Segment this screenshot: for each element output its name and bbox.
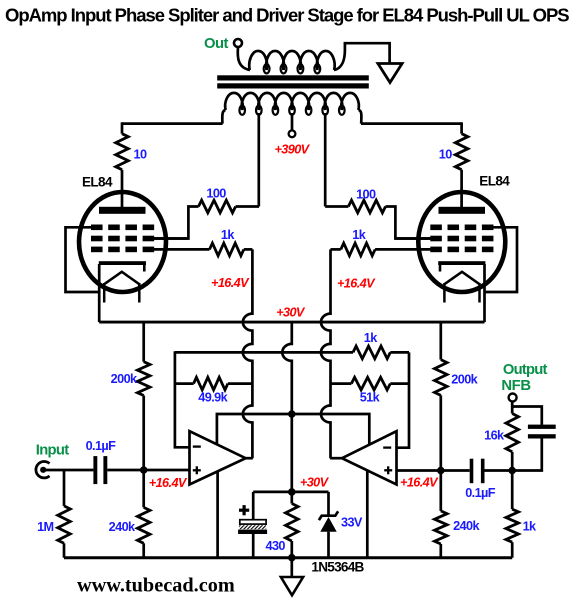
junction dot ground rail <box>288 554 296 562</box>
op-amp U2 body <box>342 431 397 484</box>
terminal Out <box>234 39 242 47</box>
resistor 1k (left grid stopper) <box>210 243 253 256</box>
svg-text:51k: 51k <box>360 390 381 404</box>
transformer T1 primary winding <box>222 93 361 124</box>
resistor 10 (left plate) <box>116 122 129 207</box>
resistor 240k (right) <box>435 471 448 558</box>
capacitor 0.1uF (input coupling) <box>93 456 107 484</box>
svg-text:Out: Out <box>204 36 229 52</box>
wire 430 to ground rail <box>290 541 293 558</box>
op-amp U1 body <box>190 431 246 484</box>
resistor 1k (right opamp input) <box>353 346 390 359</box>
wire primary left end to plate resistor <box>122 122 223 125</box>
svg-text:+16.4V: +16.4V <box>400 475 439 489</box>
wire V1 g2 lead <box>154 237 189 240</box>
tube V1 envelope <box>79 192 166 292</box>
wire V1 cathode lead <box>98 264 101 322</box>
svg-text:+16.4V: +16.4V <box>337 277 376 291</box>
svg-text:EL84: EL84 <box>479 174 510 189</box>
wire UL screen tap left <box>257 113 260 207</box>
svg-text:49.9k: 49.9k <box>198 391 228 405</box>
wire U2 minus input vertical (node E) <box>396 352 409 447</box>
wire V2 g3 to cathode (suppressor tie) <box>485 227 518 292</box>
transformer T1 core <box>217 75 369 88</box>
junction dot NFB node <box>508 467 516 475</box>
svg-text:430: 430 <box>266 539 286 553</box>
svg-text:1k: 1k <box>364 331 378 345</box>
capacitor electrolytic top plate <box>240 520 266 524</box>
tube V1 plate <box>99 207 146 214</box>
zener diode 1N5364B 33V <box>319 492 338 558</box>
connector input jack <box>36 461 50 477</box>
resistor 1M (input load) <box>58 470 71 558</box>
op-amp U2 minus sign <box>383 446 391 448</box>
wire secondary right end to ground <box>334 43 390 70</box>
tube V1 heater <box>104 272 139 303</box>
resistor 1k (NFB shunt) <box>506 471 519 558</box>
svg-text:+390V: +390V <box>274 143 310 157</box>
wire node D (right opamp output to grid, hops rails) <box>321 249 331 458</box>
wire V2 g2 lead <box>395 237 430 240</box>
wire right opamp output stub <box>330 457 343 460</box>
wire U2 plus input to NFB node <box>397 469 470 472</box>
svg-text:200k: 200k <box>111 372 138 386</box>
svg-text:www.tubecad.com: www.tubecad.com <box>77 575 235 597</box>
junction dot B / bias network <box>288 488 296 496</box>
tube V2 heater <box>444 272 479 303</box>
svg-text:1N5364B: 1N5364B <box>311 560 364 575</box>
tube V2 cathode <box>438 261 485 271</box>
resistor 49.9k (U1 feedback) <box>175 377 253 390</box>
svg-text:100: 100 <box>356 187 376 201</box>
op-amp U1 minus sign <box>193 445 201 447</box>
wire node B +30V vertical (hops minus-node wire) <box>282 322 292 503</box>
terminal +390V <box>289 130 296 137</box>
svg-text:Input: Input <box>36 443 69 459</box>
wire UL screen tap right <box>324 113 327 207</box>
junction dot input node <box>140 466 148 474</box>
svg-text:NFB: NFB <box>501 378 531 394</box>
svg-text:10: 10 <box>134 148 147 162</box>
tube V2 grids <box>430 225 493 253</box>
resistor 10 (right plate) <box>455 122 468 207</box>
wire coupling cap to U1 plus input <box>107 469 190 472</box>
wire ground rail <box>64 556 512 559</box>
wire ground rail to ground symbol <box>290 558 293 577</box>
op-amp U2 plus sign <box>384 466 392 474</box>
wire NFB cap to NFB node <box>484 469 512 472</box>
svg-text:+16.4V: +16.4V <box>149 476 188 490</box>
svg-text:+30V: +30V <box>276 306 306 320</box>
wire V2 g1 lead <box>375 248 431 251</box>
resistor 100 (left screen) <box>154 200 259 238</box>
tube V2 envelope <box>418 192 505 292</box>
tube V1 cathode <box>99 261 146 271</box>
ground (bottom) <box>281 577 303 595</box>
wire V2 cathode lead <box>483 264 486 322</box>
resistor 16k (NFB) <box>506 402 519 471</box>
svg-text:240k: 240k <box>109 520 136 534</box>
wire input jack to coupling cap <box>43 469 93 472</box>
capacitor electrolytic plus sign <box>239 505 249 515</box>
wire U1 minus input vertical <box>175 351 190 447</box>
svg-text:10: 10 <box>439 148 452 162</box>
wire U1 V- pin to ground <box>216 472 219 558</box>
svg-text:OpAmp Input Phase Spliter and: OpAmp Input Phase Spliter and Driver Sta… <box>5 5 569 26</box>
svg-text:EL84: EL84 <box>82 175 113 190</box>
wire +30V to op-amp V+ pins <box>217 414 369 445</box>
resistor 430 (cathode bias) <box>286 504 299 542</box>
svg-text:1k: 1k <box>352 228 366 242</box>
wire left opamp output stub <box>245 457 253 460</box>
wire V1 g3 to cathode (suppressor tie) <box>66 227 100 292</box>
svg-text:33V: 33V <box>341 515 363 529</box>
svg-text:16k: 16k <box>484 429 505 443</box>
wire Out terminal to secondary winding <box>238 47 250 70</box>
wire NFB cap branch <box>512 407 542 471</box>
wire primary right end to plate resistor <box>361 122 462 125</box>
resistor 1k (right grid stopper) <box>331 243 376 256</box>
junction dot right divider node <box>437 467 445 475</box>
svg-text:0.1µF: 0.1µF <box>86 439 117 453</box>
svg-text:+16.4V: +16.4V <box>211 276 250 290</box>
svg-text:240k: 240k <box>453 519 480 533</box>
capacitor electrolytic (cathode bypass) leads <box>252 492 255 558</box>
svg-text:100: 100 <box>206 186 226 200</box>
tube V1 grids <box>91 225 154 253</box>
wire center tap to B+ terminal <box>291 113 294 130</box>
tube V2 plate <box>439 207 486 214</box>
wire V1 g1 lead <box>154 248 210 251</box>
resistor 100 (right screen) <box>325 200 430 238</box>
wire node A (left opamp output to grid, hops rails) <box>243 249 253 458</box>
resistor 240k (left) <box>137 470 150 558</box>
capacitor electrolytic hatched plate <box>238 525 267 534</box>
wire U2 V- pin to ground <box>366 471 369 558</box>
capacitor NFB phase lead <box>528 425 556 439</box>
terminal Output NFB <box>509 394 517 402</box>
wire 1k to node E <box>390 351 409 354</box>
svg-text:1M: 1M <box>37 520 53 534</box>
resistor 51k (U2 feedback) <box>331 377 410 390</box>
svg-text:+30V: +30V <box>300 475 330 489</box>
resistor 200k (right) <box>435 322 448 470</box>
wire bias network top <box>253 491 328 494</box>
wire cathode rail +30V <box>99 321 484 324</box>
svg-text:200k: 200k <box>451 373 478 387</box>
svg-text:Output: Output <box>503 362 548 378</box>
transformer T1 secondary winding <box>249 51 334 73</box>
svg-text:1k: 1k <box>221 228 235 242</box>
capacitor 0.1uF (NFB coupling) <box>470 459 485 484</box>
svg-text:0.1µF: 0.1µF <box>465 486 496 500</box>
op-amp U1 plus sign <box>193 466 201 474</box>
wire left minus node to 1k <box>175 351 353 354</box>
ground (secondary) <box>378 64 402 83</box>
svg-text:1k: 1k <box>523 520 537 534</box>
resistor 200k (left) <box>137 322 150 470</box>
junction dot B / V+ rail <box>288 410 296 418</box>
